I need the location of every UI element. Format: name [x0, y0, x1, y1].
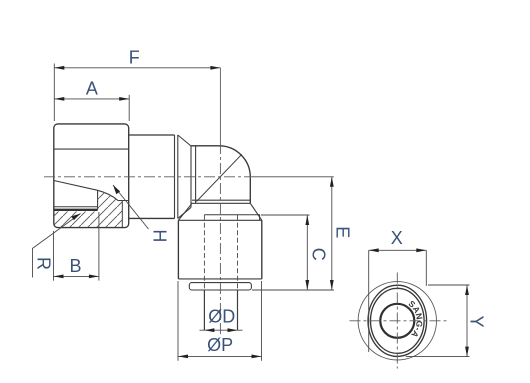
- dimension OD line: [200, 329, 243, 331]
- svg-text:ØP: ØP: [207, 335, 233, 355]
- end view collar circle: [371, 288, 425, 353]
- dimension B lines: [54, 212, 99, 281]
- dimension X lines: [369, 250, 427, 352]
- horizontal centerline of port axis: [44, 176, 252, 178]
- elbow block bottom line 1: [192, 199, 250, 201]
- bore bottom line: [54, 206, 98, 208]
- dimension OP arrows: [178, 355, 262, 359]
- hidden bore line right (dashed): [237, 215, 239, 290]
- svg-text:B: B: [69, 256, 81, 276]
- cylinder section bottom edge: [129, 217, 175, 219]
- dimension A line: [54, 95, 129, 121]
- cylinder section top edge: [129, 134, 175, 136]
- left hatch patch: [54, 212, 98, 228]
- end view horizontal centerline: [350, 320, 448, 322]
- elbow block bottom line 2: [191, 202, 250, 204]
- tube collar left edge: [203, 290, 205, 330]
- leader H arrowhead: [113, 185, 120, 194]
- svg-text:ØD: ØD: [208, 307, 235, 327]
- cartridge left shoulder slant: [178, 203, 192, 220]
- right hatch patch: [98, 190, 123, 227]
- cartridge inner top line: [204, 215, 259, 221]
- vertical centerline of down leg: [219, 68, 221, 143]
- cartridge body left edge: [177, 220, 179, 279]
- dimension OP lines: [178, 281, 262, 361]
- dimension A arrows: [54, 97, 129, 101]
- leader H: [113, 185, 149, 229]
- dimension OD arrows: [204, 328, 237, 332]
- leader R: [33, 214, 81, 278]
- dimension F line: [54, 64, 220, 122]
- elbow block top edge and corner arc: [191, 146, 250, 177]
- end view bore circle: [380, 304, 414, 338]
- right hatch notch edge: [121, 201, 123, 228]
- end view outer circle: [358, 282, 436, 360]
- bore bottom thick line: [54, 209, 98, 211]
- dimension X arrows: [369, 248, 427, 252]
- release collar outline: [189, 283, 251, 290]
- svg-text:C: C: [308, 248, 328, 261]
- dimension C arrows: [305, 215, 309, 290]
- elbow 45 degree transition line: [197, 154, 242, 201]
- hex facet line: [54, 148, 129, 150]
- top shoulder slant: [178, 135, 191, 146]
- svg-text:X: X: [391, 228, 403, 248]
- ring vertical 2: [177, 135, 179, 218]
- svg-text:Y: Y: [466, 315, 486, 327]
- hidden bore line left (dashed): [203, 215, 205, 290]
- dimension F arrows: [54, 66, 220, 70]
- hex nut outline: [54, 124, 129, 228]
- leader R arrowhead: [71, 214, 80, 221]
- svg-text:E: E: [333, 226, 353, 238]
- section taper line (thread cone): [54, 181, 129, 201]
- elbow block left edge 1: [190, 146, 192, 207]
- svg-text:A: A: [86, 79, 98, 99]
- ring vertical 1: [174, 135, 176, 218]
- dimension Y arrows: [465, 285, 469, 357]
- end view vertical centerline: [396, 273, 398, 369]
- dimension E lines: [252, 177, 334, 290]
- svg-text:F: F: [129, 48, 140, 68]
- svg-text:R: R: [34, 257, 54, 270]
- dimension Y lines: [406, 285, 470, 357]
- elbow block left edge 2: [195, 146, 197, 203]
- tube collar right edge: [237, 290, 239, 330]
- bottom shoulder slant: [178, 207, 191, 218]
- flange bottom line of cartridge body: [178, 278, 261, 280]
- cartridge outer top line: [178, 219, 261, 221]
- SANG-A curved text: [401, 305, 416, 340]
- dimension C lines: [261, 215, 310, 290]
- end view body oval: [368, 285, 427, 356]
- dimension E arrows: [330, 177, 334, 290]
- dimension B arrows: [54, 275, 99, 279]
- cartridge body right edge: [261, 220, 263, 279]
- svg-text:H: H: [150, 229, 170, 242]
- cartridge right shoulder slant: [250, 203, 261, 220]
- thread end face: [97, 190, 99, 210]
- elbow block right edge: [249, 177, 251, 203]
